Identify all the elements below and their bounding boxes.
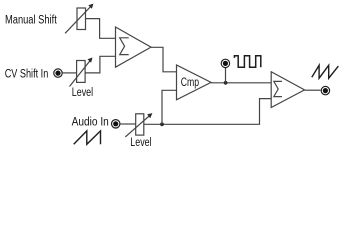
wire U3 to output jack [305,89,321,91]
jack J4 main out [321,86,329,94]
jack J2 Audio In [112,120,120,128]
wire U2 output to summer U3 input 1 [211,82,271,84]
jack J1 CV Shift In [54,69,62,77]
wire R2 to summer U1 input 2 [85,56,115,73]
svg-text:Cmp: Cmp [181,77,199,89]
op-amp U3 output summer [271,72,304,108]
svg-text:Level: Level [72,87,93,99]
waveform square wave glyph [234,56,260,67]
potentiometer R1 (Manual Shift level) [65,4,93,34]
op-amp U1 summing amp [116,27,152,67]
node junction J-sq [224,81,228,85]
wire J1 to R2 [63,72,77,74]
wire audio rail R3 to summer U3 input 2 [144,99,271,125]
wire J2 to R3 [121,123,136,125]
waveform audio sawtooth glyph [74,131,101,144]
svg-text:Audio In: Audio In [72,117,109,129]
op-amp U2 comparator [177,65,212,100]
node junction J-audio [160,122,164,126]
wire junction to comparator U2 input 2 [162,90,177,124]
svg-text:Manual Shift: Manual Shift [5,15,57,27]
wire U1 output to comparator U2 input 1 [151,47,177,72]
waveform output sawtooth glyph [312,65,339,78]
sigma symbol U1 [120,38,129,55]
jack J3 square wave out [221,59,229,67]
wire R1 to summer U1 input 1 [86,19,116,39]
svg-text:CV Shift In: CV Shift In [5,69,49,81]
svg-text:Level: Level [130,137,151,149]
potentiometer R3 (Audio Level) [125,113,152,137]
sigma symbol U3 [274,81,282,96]
potentiometer R2 (CV Level) [70,58,93,87]
wire junction to square out jack [225,68,227,83]
